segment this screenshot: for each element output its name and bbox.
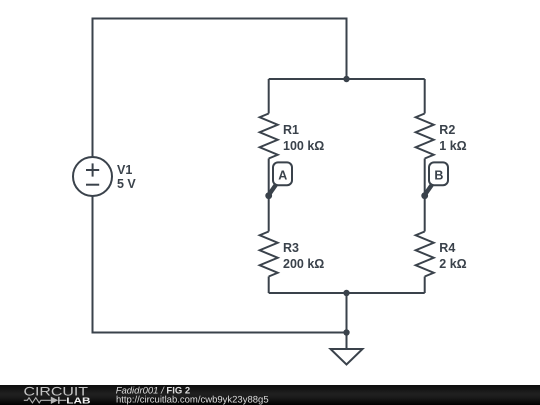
svg-text:R3: R3 bbox=[283, 241, 299, 255]
svg-text:http://circuitlab.com/cwb9yk23: http://circuitlab.com/cwb9yk23y88g5 bbox=[116, 395, 269, 405]
svg-text:2 kΩ: 2 kΩ bbox=[439, 257, 466, 271]
svg-text:1 kΩ: 1 kΩ bbox=[439, 139, 466, 153]
svg-text:B: B bbox=[434, 169, 443, 183]
svg-text:R2: R2 bbox=[439, 123, 455, 137]
svg-text:200 kΩ: 200 kΩ bbox=[283, 257, 324, 271]
svg-text:V1: V1 bbox=[117, 163, 132, 177]
svg-text:LAB: LAB bbox=[66, 396, 90, 405]
svg-text:R1: R1 bbox=[283, 123, 299, 137]
svg-text:5 V: 5 V bbox=[117, 177, 136, 191]
svg-text:R4: R4 bbox=[439, 241, 455, 255]
svg-text:100 kΩ: 100 kΩ bbox=[283, 139, 324, 153]
svg-text:A: A bbox=[278, 169, 287, 183]
